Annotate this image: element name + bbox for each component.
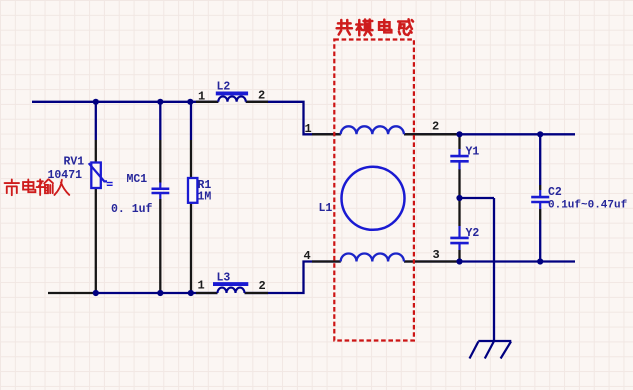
svg-text:C2: C2: [548, 186, 562, 199]
svg-text:Y2: Y2: [466, 227, 480, 240]
svg-text:L3: L3: [217, 272, 231, 285]
svg-text:RV1: RV1: [64, 156, 85, 169]
svg-text:1: 1: [198, 90, 205, 104]
svg-text:0. 1uf: 0. 1uf: [111, 203, 153, 216]
svg-text:2: 2: [432, 120, 439, 134]
svg-text:2: 2: [258, 89, 265, 103]
svg-text:10471: 10471: [48, 169, 83, 182]
svg-text:L2: L2: [217, 81, 231, 94]
svg-text:2: 2: [259, 279, 266, 293]
svg-text:0.1uf~0.47uf: 0.1uf~0.47uf: [548, 200, 628, 212]
svg-text:L1: L1: [319, 202, 333, 215]
svg-text:MC1: MC1: [127, 173, 148, 186]
svg-text:4: 4: [304, 249, 311, 263]
svg-text:1: 1: [305, 122, 312, 136]
svg-text:3: 3: [433, 248, 440, 262]
svg-text:1M: 1M: [198, 191, 212, 204]
svg-text:Y1: Y1: [466, 146, 480, 159]
svg-text:1: 1: [198, 279, 205, 293]
